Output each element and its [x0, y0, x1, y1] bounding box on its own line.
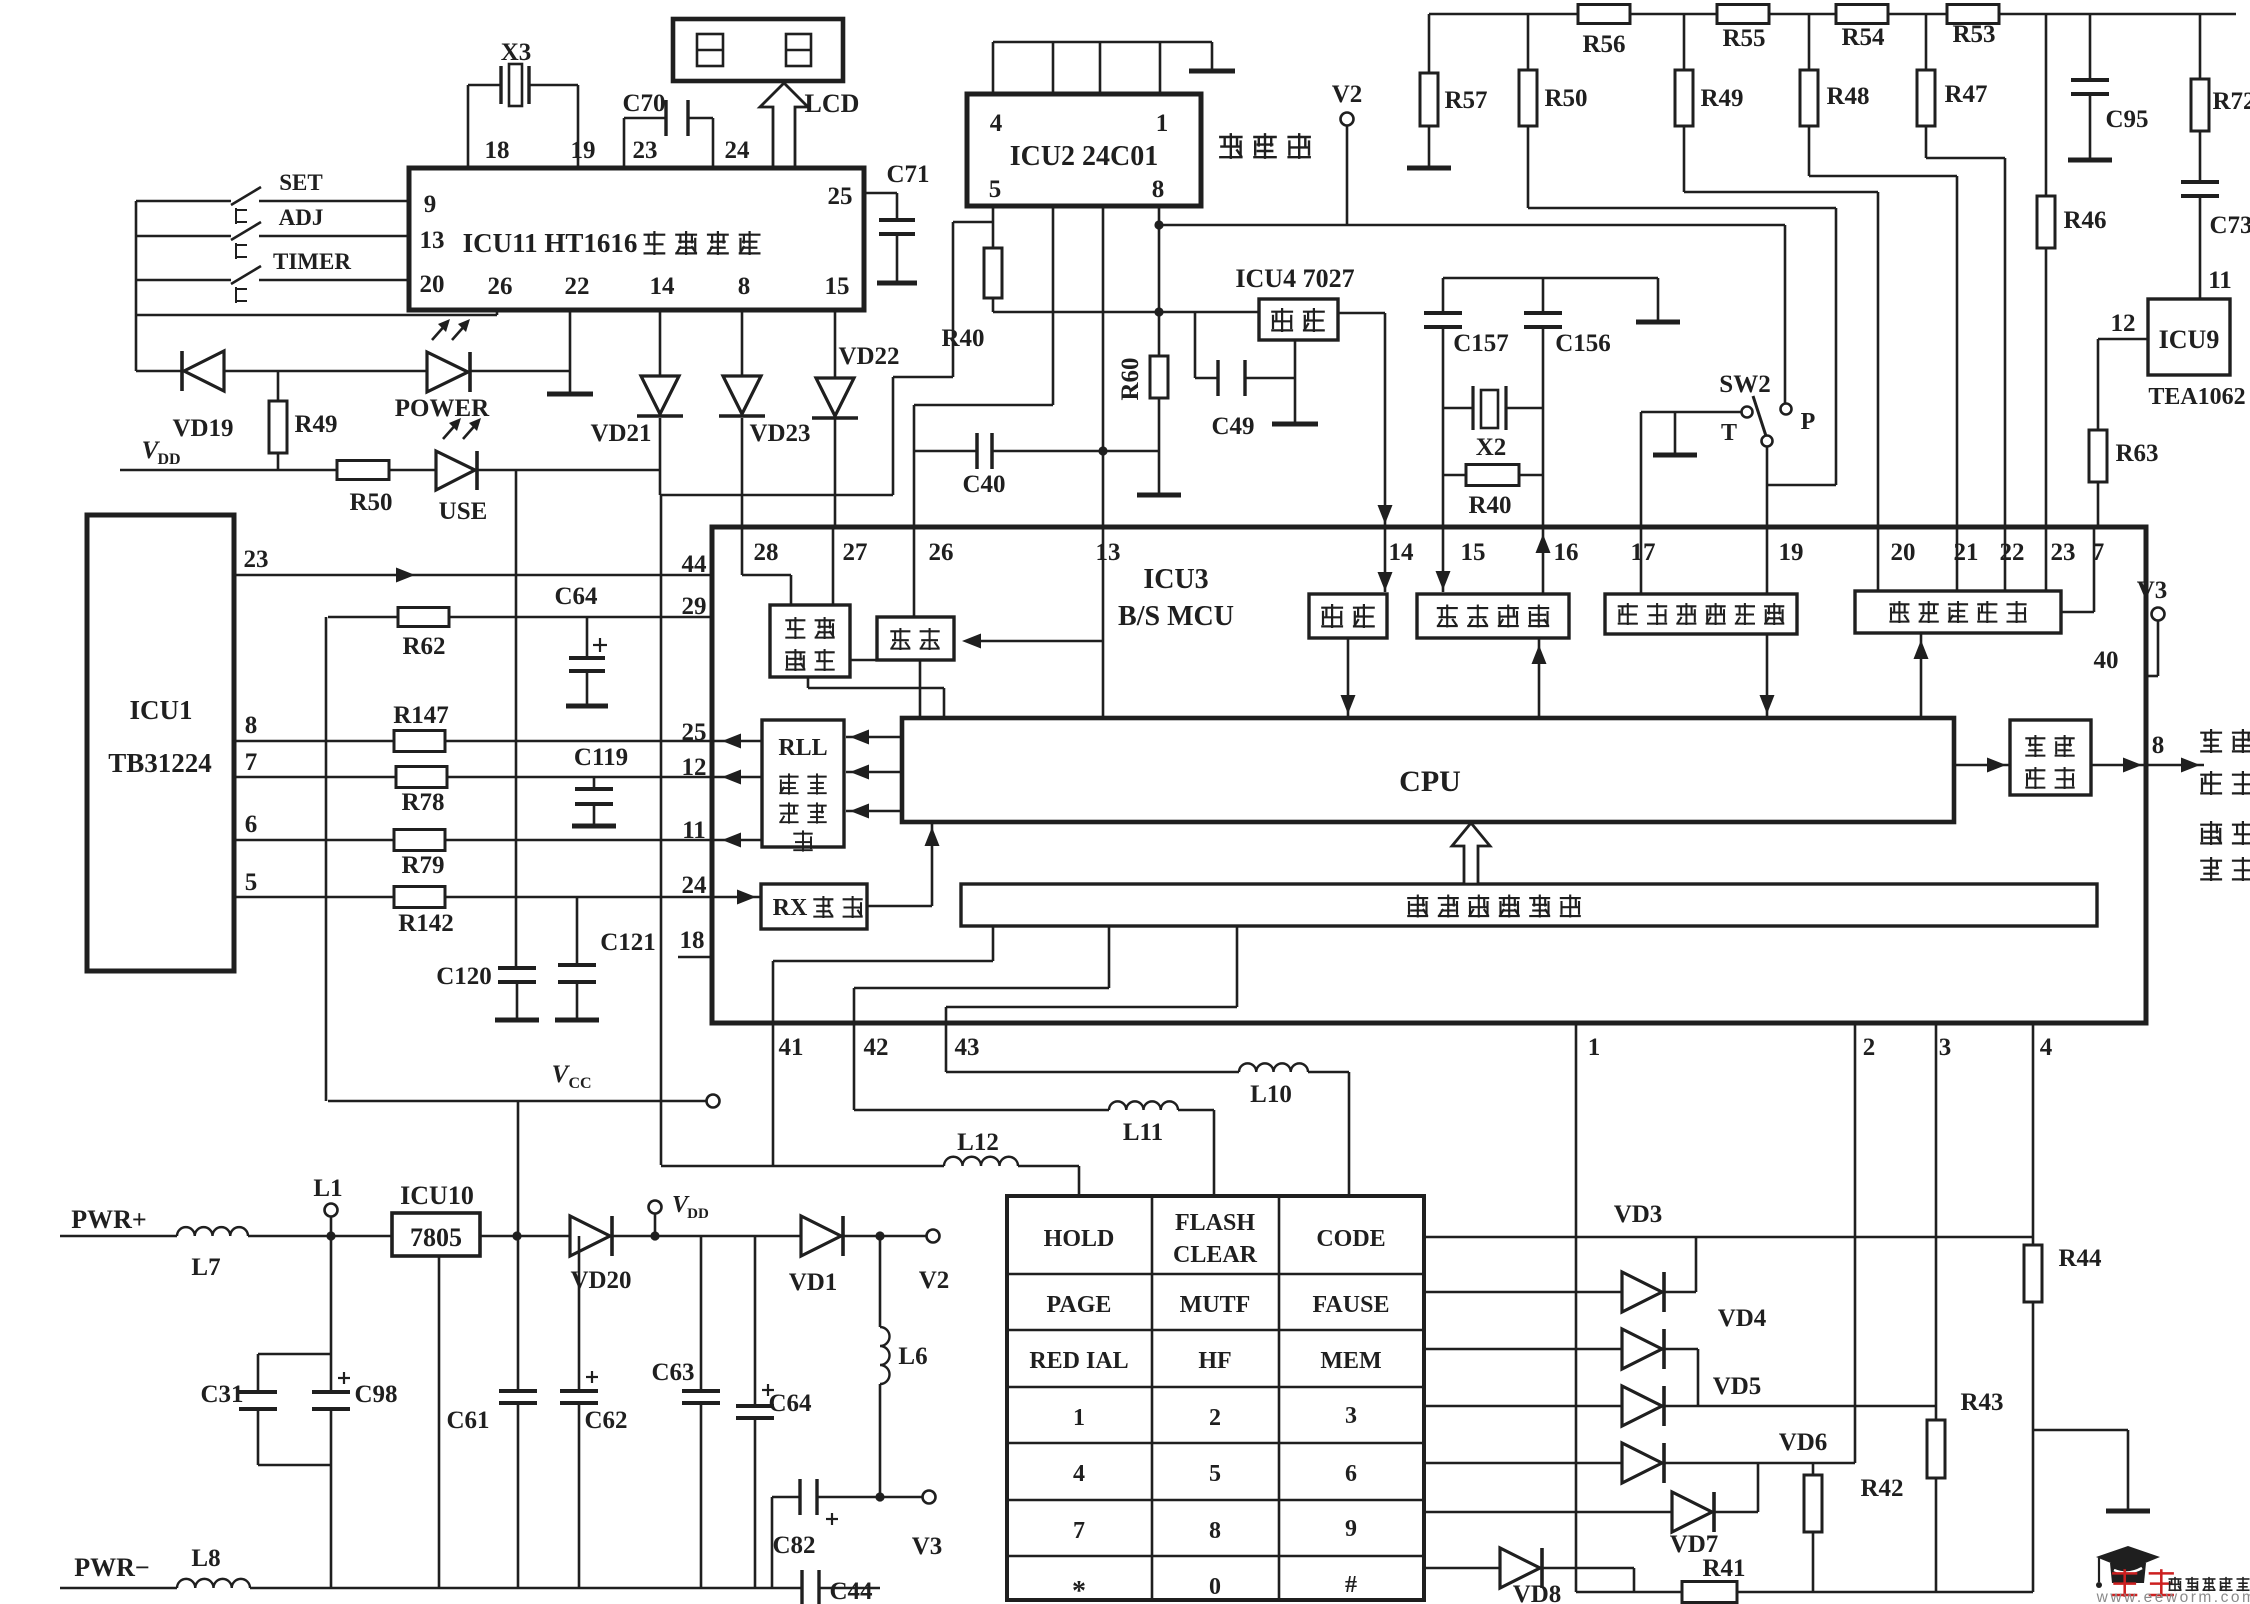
capacitor C62 [560, 1236, 628, 1588]
svg-text:L11: L11 [1123, 1119, 1163, 1146]
inductor L7 [60, 1227, 248, 1281]
svg-text:C73: C73 [2209, 212, 2250, 239]
wire [1078, 1166, 1081, 1196]
svg-text:ICU11 HT1616: ICU11 HT1616 [463, 228, 638, 258]
resistor R57 [1407, 14, 1488, 168]
svg-text:15: 15 [825, 273, 850, 300]
wire pin7 in [2061, 527, 2094, 612]
inductor L12 [661, 1129, 1079, 1166]
pin 14 [1389, 539, 1415, 566]
resistor R54 [1836, 5, 1888, 52]
pin 18 [678, 927, 712, 957]
key * [1072, 1576, 1086, 1604]
svg-text:11: 11 [682, 817, 706, 844]
capacitor C156 [1524, 278, 1611, 357]
svg-text:R43: R43 [1960, 1389, 2003, 1416]
wire [480, 1231, 570, 1240]
pin 5 [245, 869, 258, 896]
svg-text:8: 8 [738, 273, 751, 300]
pin 26 [488, 273, 513, 300]
resistor R49 [269, 371, 338, 453]
svg-text:www.eeworm.com: www.eeworm.com [2096, 1589, 2250, 1604]
svg-text:23: 23 [633, 137, 658, 164]
diode VD1 [789, 1216, 843, 1296]
capacitor C63 [651, 1236, 720, 1588]
wire [834, 418, 837, 527]
resistor R47 [1917, 14, 1988, 158]
resistor R56 [1578, 5, 1630, 59]
pin 11 [2208, 267, 2232, 294]
svg-text:19: 19 [571, 137, 596, 164]
svg-text:R56: R56 [1582, 31, 1625, 58]
svg-text:9: 9 [424, 191, 437, 218]
svg-text:ICU4 7027: ICU4 7027 [1235, 264, 1354, 293]
svg-text:20: 20 [420, 271, 445, 298]
key FLASH CLEAR [1173, 1210, 1258, 1268]
key CODE [1316, 1226, 1385, 1252]
svg-text:CODE: CODE [1316, 1226, 1385, 1252]
IC ICU2 24C01 [967, 94, 1201, 206]
svg-text:R46: R46 [2063, 207, 2106, 234]
key 5 [1209, 1461, 1221, 1487]
wire [248, 1231, 392, 1240]
svg-text:USE: USE [439, 498, 488, 525]
svg-text:V3: V3 [912, 1533, 943, 1560]
svg-text:VD7: VD7 [1670, 1531, 1719, 1558]
wire 7805 gnd [438, 1256, 441, 1588]
diode VD7 [1424, 1492, 1758, 1558]
svg-text:22: 22 [565, 273, 590, 300]
wire CPU to RLL [846, 730, 902, 745]
svg-text:14: 14 [650, 273, 676, 300]
wire [914, 206, 1053, 451]
capacitor C70 [622, 90, 713, 136]
svg-text:VD21: VD21 [590, 420, 651, 447]
svg-text:RX: RX [773, 895, 808, 921]
svg-text:VD19: VD19 [172, 415, 233, 442]
svg-text:MEM: MEM [1320, 1348, 1381, 1374]
svg-text:R47: R47 [1944, 81, 1987, 108]
wire pin23 in [2045, 527, 2048, 591]
pin 23 [244, 546, 269, 573]
pin 23 [2051, 539, 2076, 566]
svg-text:C95: C95 [2105, 106, 2148, 133]
wire row1 [1424, 1236, 2033, 1239]
pin 42 [864, 1034, 889, 1061]
pin 19 [571, 137, 596, 164]
wire top rail [1429, 13, 1578, 16]
svg-text:4: 4 [1073, 1461, 1085, 1487]
svg-text:23: 23 [2051, 539, 2076, 566]
svg-text:C63: C63 [651, 1359, 694, 1386]
wire [1341, 638, 1356, 718]
svg-text:R147: R147 [393, 702, 449, 729]
svg-text:5: 5 [989, 176, 1002, 203]
pin 20 [420, 271, 445, 298]
key 7 [1073, 1518, 1085, 1544]
svg-text:0: 0 [1209, 1574, 1221, 1600]
pin 16 [1554, 539, 1579, 566]
node V3 [912, 1491, 943, 1561]
resistor R40 [941, 206, 1002, 352]
wire PWR- rail [60, 1587, 802, 1590]
svg-text:18: 18 [680, 927, 705, 954]
svg-text:L1: L1 [313, 1175, 342, 1202]
svg-text:R78: R78 [401, 789, 444, 816]
IC ICU11 HT1616 display module [409, 168, 864, 310]
svg-text:TB31224: TB31224 [108, 748, 212, 778]
pin 27 [843, 539, 868, 566]
svg-text:R40: R40 [941, 325, 984, 352]
resistor R72 [2191, 14, 2250, 182]
ground reset [1272, 340, 1318, 424]
label ICU4 7027 [1235, 264, 1354, 293]
pin 7 [2092, 539, 2105, 566]
svg-text:29: 29 [682, 593, 707, 620]
resistor R50 [1519, 14, 1588, 208]
pin 21 [1954, 539, 1979, 566]
wire [1102, 206, 1105, 451]
svg-text:R49: R49 [1700, 85, 1743, 112]
resistor R63 [2089, 339, 2159, 527]
svg-text:4: 4 [2040, 1034, 2053, 1061]
wire RX to CPU [867, 822, 940, 906]
pin 24 [725, 137, 751, 164]
ground SW2 [1653, 412, 1697, 455]
resistor R60 [1117, 312, 1168, 451]
svg-text:R142: R142 [398, 910, 454, 937]
wire [613, 1231, 801, 1240]
diode VD21 [590, 310, 683, 447]
svg-text:13: 13 [420, 227, 445, 254]
svg-text:VD23: VD23 [749, 420, 810, 447]
wire pin21 in [1956, 527, 1959, 591]
svg-text:R62: R62 [402, 633, 445, 660]
ground ICU2 pin1 [1189, 42, 1235, 71]
diode VD20 [570, 1216, 632, 1294]
svg-text:2: 2 [1209, 1405, 1221, 1431]
svg-text:C98: C98 [354, 1381, 397, 1408]
node VDD [649, 1192, 709, 1236]
node VDD [120, 437, 337, 470]
svg-text:HOLD: HOLD [1044, 1226, 1115, 1252]
wire [1914, 633, 1929, 718]
wire pin26 [913, 527, 916, 617]
pin 44 [682, 551, 708, 578]
svg-text:R44: R44 [2058, 1245, 2102, 1272]
svg-text:VD5: VD5 [1713, 1373, 1762, 1400]
svg-text:CPU: CPU [1399, 765, 1461, 798]
svg-text:6: 6 [1345, 1461, 1357, 1487]
svg-text:VD6: VD6 [1779, 1429, 1828, 1456]
wire [1532, 638, 1547, 718]
key 6 [1345, 1461, 1357, 1487]
capacitor C40 [914, 433, 1159, 498]
pin 41 [779, 1034, 804, 1061]
resistor R53 [1947, 5, 1999, 49]
label PWR- [74, 1553, 149, 1582]
svg-text:L7: L7 [191, 1254, 220, 1281]
svg-text:PWR+: PWR+ [71, 1205, 146, 1234]
ground [1636, 278, 1680, 322]
diode VD23 [719, 310, 811, 447]
key FAUSE [1313, 1292, 1390, 1318]
wire [1737, 1591, 2033, 1594]
wire [808, 677, 944, 718]
svg-text:44: 44 [682, 551, 708, 578]
wire pin17 [1640, 412, 1643, 527]
wire [1213, 1110, 1216, 1196]
pin 1 [1588, 1034, 1601, 1061]
svg-text:16: 16 [1554, 539, 1579, 566]
resistor R142 [234, 887, 761, 938]
capacitor C82 [772, 1479, 922, 1559]
wire pin26 return [136, 310, 497, 315]
pin 15 [825, 273, 850, 300]
svg-text:RED IAL: RED IAL [1029, 1348, 1128, 1374]
svg-text:C156: C156 [1555, 330, 1611, 357]
wire keyboard row B [854, 926, 1109, 1110]
wire VD21 to R40 net [660, 222, 993, 495]
diode VD8 [1424, 1548, 1634, 1604]
key HOLD [1044, 1226, 1115, 1252]
wire pin22 in [2004, 527, 2007, 591]
svg-text:R50: R50 [349, 489, 392, 516]
svg-text:1: 1 [1156, 110, 1169, 137]
svg-text:25: 25 [828, 183, 853, 210]
key PAGE [1047, 1292, 1112, 1318]
svg-text:3: 3 [1345, 1403, 1357, 1429]
pin 11 [682, 817, 706, 844]
label memory [1219, 133, 1311, 159]
resistor R40 [1443, 465, 1543, 520]
svg-text:PWR−: PWR− [74, 1553, 149, 1582]
wire pin28 [742, 527, 791, 605]
capacitor C64 [554, 583, 608, 706]
wire [1158, 206, 1161, 312]
svg-text:C70: C70 [622, 90, 665, 117]
svg-text:14: 14 [1389, 539, 1415, 566]
pin 8 [245, 712, 258, 739]
pin 7 [245, 749, 258, 776]
watermark url [2096, 1589, 2250, 1604]
block display control [770, 605, 850, 677]
wire [468, 85, 578, 168]
svg-text:C64: C64 [768, 1390, 812, 1417]
key 4 [1073, 1461, 1085, 1487]
svg-text:R50: R50 [1544, 85, 1587, 112]
svg-text:T: T [1721, 420, 1737, 446]
pin 12 [682, 754, 707, 781]
pin 2 [1863, 1034, 1876, 1061]
watermark logo cap [2096, 1546, 2160, 1588]
pin 26 [929, 539, 954, 566]
wire pin16 col [1542, 327, 1545, 527]
svg-text:VD3: VD3 [1614, 1201, 1663, 1228]
label PWR+ [71, 1205, 146, 1234]
pin 14 [650, 273, 676, 300]
svg-text:15: 15 [1461, 539, 1486, 566]
capacitor C119 [572, 744, 628, 826]
capacitor C121 [555, 897, 656, 1020]
watermark site name [2169, 1577, 2250, 1591]
wire pin20 in [1877, 527, 1880, 591]
diode VD4 [1424, 1305, 1767, 1406]
LCD display box [673, 19, 843, 81]
svg-text:P: P [1801, 409, 1816, 435]
capacitor C61 [446, 1236, 537, 1588]
svg-text:R49: R49 [294, 411, 337, 438]
resistor R46 [2037, 14, 2107, 527]
block pulse dial [2010, 720, 2091, 795]
wire pin19 [1766, 446, 1769, 527]
pin 40 [2094, 647, 2119, 674]
key HF [1198, 1348, 1231, 1374]
svg-text:L6: L6 [898, 1343, 927, 1370]
svg-text:4: 4 [990, 110, 1003, 137]
key 1 [1073, 1405, 1085, 1431]
svg-text:6: 6 [245, 811, 258, 838]
block RX detect [761, 884, 867, 929]
wire R47 to pin22 [1926, 158, 2005, 527]
key 0 [1209, 1574, 1221, 1600]
wire [819, 1587, 880, 1590]
svg-text:R57: R57 [1444, 87, 1487, 114]
block reset ICU4 [1259, 299, 1338, 340]
svg-text:24: 24 [682, 872, 708, 899]
node L1 [313, 1175, 342, 1236]
pin 13 [1096, 539, 1121, 566]
svg-text:C64: C64 [554, 583, 598, 610]
capacitor C31 [200, 1354, 331, 1465]
wire pin16 in [1536, 527, 1551, 594]
svg-text:X3: X3 [501, 39, 532, 66]
resistor R79 [234, 830, 762, 880]
svg-text:*: * [1072, 1576, 1086, 1604]
inductor L11 [854, 1101, 1214, 1146]
inductor L8 [177, 1545, 250, 1588]
crystal X3 [468, 39, 578, 106]
wire R49 to pin20 [1684, 192, 1878, 527]
key MUTF [1180, 1292, 1251, 1318]
svg-text:DD: DD [157, 451, 180, 468]
svg-text:VD8: VD8 [1513, 1581, 1562, 1604]
svg-text:ICU10: ICU10 [400, 1181, 474, 1210]
pin 17 [1631, 539, 1656, 566]
svg-text:41: 41 [779, 1034, 804, 1061]
pin 28 [754, 539, 779, 566]
capacitor C71 [864, 161, 930, 283]
pin 9 [424, 191, 437, 218]
svg-text:LCD: LCD [805, 89, 860, 118]
wire ICU2 top bus [993, 42, 1212, 94]
wire [325, 617, 328, 1101]
wire [1769, 13, 1836, 16]
svg-text:C40: C40 [962, 471, 1005, 498]
key 8 [1209, 1518, 1221, 1544]
svg-text:L10: L10 [1250, 1081, 1292, 1108]
capacitor C44 [802, 1570, 873, 1604]
wire [470, 370, 570, 373]
inductor L10 [946, 1063, 1349, 1108]
IC ICU10 7805 [392, 1181, 480, 1256]
wire bottom rail [1576, 1591, 1682, 1594]
ground [2033, 1430, 2150, 1511]
svg-text:11: 11 [2208, 267, 2232, 294]
svg-text:L12: L12 [957, 1129, 999, 1156]
svg-text:RLL: RLL [778, 735, 827, 761]
block DTMF dial [1855, 591, 2061, 633]
svg-text:5: 5 [1209, 1461, 1221, 1487]
wire keyboard row A [773, 926, 993, 1166]
wire [1999, 13, 2236, 16]
pin 8 [738, 273, 751, 300]
svg-text:C119: C119 [574, 744, 628, 771]
pin 18 [485, 137, 510, 164]
pin 22 [2000, 539, 2025, 566]
LED POWER [224, 319, 490, 422]
capacitor C98 [312, 1236, 398, 1588]
svg-text:R60: R60 [1117, 357, 1144, 400]
svg-text:ICU1: ICU1 [129, 695, 192, 725]
svg-text:FLASH: FLASH [1175, 1210, 1255, 1236]
svg-text:R79: R79 [401, 852, 444, 879]
svg-text:HF: HF [1198, 1348, 1231, 1374]
svg-text:CLEAR: CLEAR [1173, 1242, 1258, 1268]
capacitor C120 [436, 963, 539, 1020]
wire reset to pin14 [1338, 313, 1393, 592]
svg-text:20: 20 [1891, 539, 1916, 566]
block keyboard encoder [961, 884, 2097, 926]
svg-text:B/S MCU: B/S MCU [1118, 601, 1234, 632]
svg-text:X2: X2 [1476, 434, 1507, 461]
wire clock input [962, 634, 1103, 649]
LED USE [389, 418, 487, 525]
pin 13 [420, 227, 445, 254]
svg-text:V2: V2 [1332, 81, 1363, 108]
key 3 [1345, 1403, 1357, 1429]
wire pin17 in [1640, 527, 1643, 594]
wire pin26 [913, 451, 916, 527]
svg-text:#: # [1345, 1572, 1357, 1598]
svg-text:MUTF: MUTF [1180, 1292, 1251, 1318]
watermark chongchong [2112, 1569, 2174, 1597]
capacitor C73 [2181, 182, 2250, 299]
ground pin22 [547, 310, 593, 394]
svg-text:SW2: SW2 [1719, 371, 1770, 398]
wire [843, 1231, 926, 1240]
switch SET [136, 170, 409, 224]
svg-text:VD22: VD22 [838, 343, 899, 370]
LCD arrow [760, 83, 859, 168]
block dial mode switch [1605, 594, 1797, 634]
svg-text:8: 8 [1152, 176, 1165, 203]
resistor R43 [1927, 1023, 2004, 1592]
block RLL PLL signal [762, 720, 844, 852]
svg-text:VD1: VD1 [789, 1269, 838, 1296]
capacitor C64 [736, 1236, 812, 1588]
node VCC [328, 1061, 720, 1108]
svg-text:ADJ: ADJ [279, 205, 324, 230]
svg-text:R54: R54 [1841, 24, 1885, 51]
crystal X2 [1443, 386, 1543, 461]
diode VD19 [136, 351, 234, 442]
svg-text:R72: R72 [2212, 88, 2250, 115]
svg-text:24: 24 [725, 137, 751, 164]
svg-text:SET: SET [279, 170, 322, 195]
svg-text:23: 23 [244, 546, 269, 573]
resistor R41 [1682, 1555, 1746, 1603]
